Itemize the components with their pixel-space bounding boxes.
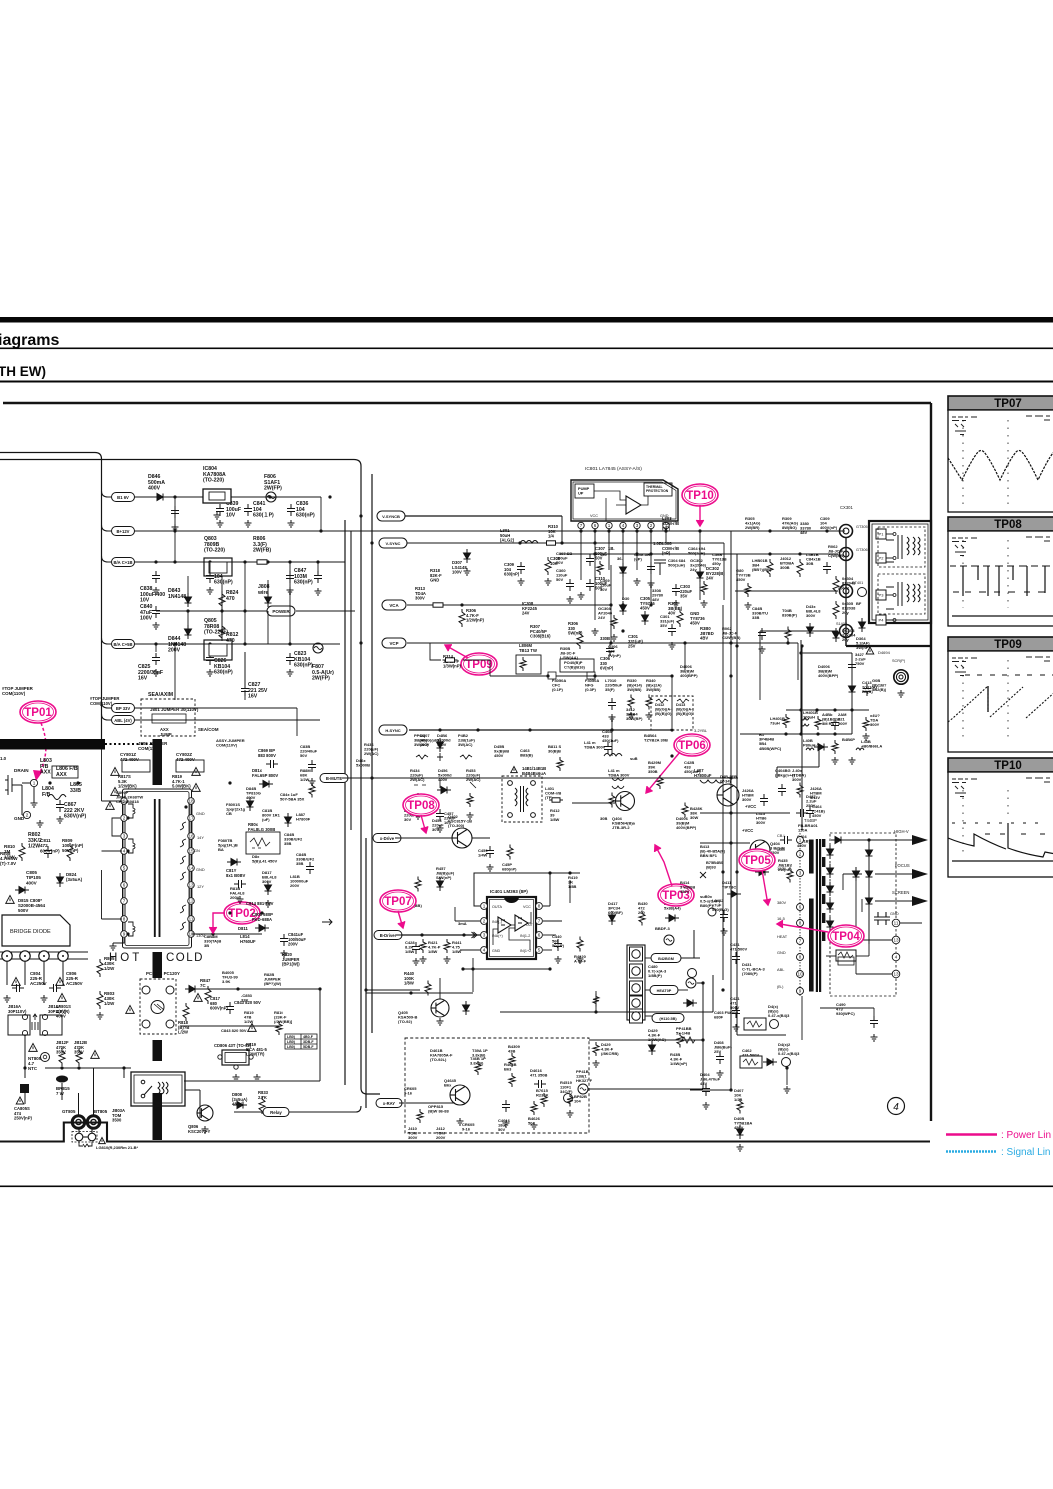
wire <box>24 961 26 985</box>
yoke pin box 2 <box>876 553 886 563</box>
svg-text:J801 JUMPER 30(110V): J801 JUMPER 30(110V) <box>150 707 199 712</box>
svg-text:(BP?)(W): (BP?)(W) <box>264 981 282 986</box>
wire <box>155 644 157 652</box>
label C369 <box>600 578 612 592</box>
transformer core <box>155 799 160 937</box>
label B413 <box>700 844 726 858</box>
svg-text:L/2W: L/2W <box>178 1030 188 1035</box>
wire <box>244 690 246 700</box>
junction <box>867 838 870 841</box>
svg-text:1/4W(nP): 1/4W(nP) <box>670 1061 688 1066</box>
label PP04 <box>414 733 429 747</box>
wire <box>665 529 667 543</box>
ground <box>437 825 444 832</box>
svg-text:1N4148: 1N4148 <box>168 594 186 600</box>
capacitor C440 <box>554 939 562 951</box>
IC402 pin 2 <box>481 918 488 925</box>
label C4M <box>838 712 848 726</box>
label R310 <box>548 524 559 539</box>
resistor R806 <box>254 560 270 564</box>
resistor R43x <box>677 1033 683 1048</box>
cap black <box>20 1084 29 1093</box>
svg-text:H7800F: H7800F <box>296 817 311 822</box>
svg-text:35V: 35V <box>660 623 667 628</box>
regulator IC804 body <box>203 489 231 503</box>
svg-text:3: 3 <box>483 933 486 938</box>
svg-text:200V: 200V <box>288 942 298 947</box>
svg-text:GT805: GT805 <box>62 1109 76 1114</box>
diode D30x <box>437 738 444 752</box>
T801 hook 2-3 <box>112 818 120 836</box>
diode D454 <box>437 787 451 794</box>
ground <box>737 1144 744 1151</box>
mosfet Q801 <box>5 775 22 795</box>
svg-text:Relay: Relay <box>270 1110 282 1115</box>
label L306 <box>519 643 537 653</box>
capacitor C360 <box>566 579 574 591</box>
wire <box>407 542 724 544</box>
diode D411b <box>727 891 741 898</box>
svg-text:TP09: TP09 <box>994 639 1022 651</box>
label D844 <box>168 636 186 654</box>
svg-text:(0.3P): (0.3P) <box>585 687 597 692</box>
svg-text:1/8W: 1/8W <box>404 981 414 986</box>
svg-text:3W(AC): 3W(AC) <box>414 742 429 747</box>
label suB0x <box>700 894 721 908</box>
svg-text:HIGH-V: HIGH-V <box>894 829 909 834</box>
label C307 <box>595 546 608 561</box>
wire <box>671 676 673 728</box>
svg-text:GND: GND <box>890 911 899 916</box>
svg-text:4: 4 <box>893 1102 899 1113</box>
circ mark2 <box>688 969 697 978</box>
diode D40B <box>737 1125 744 1139</box>
svg-text:50Y-5BA 35X: 50Y-5BA 35X <box>280 797 305 802</box>
label D411 <box>722 880 736 890</box>
capacitor C846b <box>314 571 322 583</box>
wire trunk x737 <box>736 554 738 1035</box>
label R062b <box>828 544 845 558</box>
ground <box>172 524 179 531</box>
wire to CY306 <box>560 553 838 555</box>
label A40b <box>822 712 841 726</box>
resistor R346 <box>646 695 652 710</box>
junction <box>218 495 221 498</box>
label CR605b <box>404 1086 417 1096</box>
svg-text:GT306: GT306 <box>856 548 868 552</box>
label R810 <box>4 844 15 859</box>
svg-text:(TO-220F): (TO-220F) <box>204 630 228 636</box>
IC801 thermal box <box>644 483 672 496</box>
label F8001S <box>226 802 246 816</box>
wire <box>543 934 556 936</box>
svg-text:TP10: TP10 <box>994 760 1022 772</box>
svg-text:B1 6V: B1 6V <box>117 495 129 500</box>
connector V-SYNC <box>379 538 407 548</box>
svg-text:B4B4Bx6uA: B4B4Bx6uA <box>522 771 546 776</box>
svg-text:8W(BG): 8W(BG) <box>782 525 797 530</box>
svg-text:B63: B63 <box>504 1067 512 1072</box>
T801 winding right <box>180 822 186 830</box>
wire <box>405 515 562 517</box>
junction <box>228 781 231 784</box>
svg-text:2: 2 <box>650 523 653 528</box>
svg-text:470: 470 <box>226 638 235 644</box>
warning mark <box>192 784 201 792</box>
svg-text:1.0B: 1.0B <box>653 541 662 546</box>
label D429b <box>601 1042 619 1056</box>
wire <box>594 532 596 620</box>
wire <box>134 530 845 532</box>
resistor B4309 <box>509 1053 515 1067</box>
label <box>608 546 615 551</box>
label D429 <box>648 1028 666 1042</box>
label C360 <box>556 568 568 582</box>
resistor JB12 <box>59 1048 65 1066</box>
junction <box>594 1010 597 1013</box>
connector ABL (4V) <box>112 716 135 725</box>
svg-text:P3: P3 <box>879 593 885 598</box>
coil L40B <box>806 748 814 750</box>
svg-text:24V: 24V <box>522 611 530 616</box>
wire <box>712 975 714 1012</box>
label D454b <box>404 808 416 822</box>
svg-text:5x000B: 5x000B <box>356 763 370 768</box>
IC402 pin 1 <box>481 903 488 910</box>
resistor R805 <box>97 959 103 977</box>
relay contacts <box>141 1080 168 1098</box>
svg-text:HEAT: HEAT <box>777 934 788 939</box>
wire <box>580 529 582 543</box>
ground <box>487 864 494 871</box>
label C81Y <box>226 868 246 878</box>
CN402 pin 1 <box>630 947 643 961</box>
svg-text:GND: GND <box>196 867 205 872</box>
svg-text:7: 7 <box>799 939 802 944</box>
junction <box>328 495 331 498</box>
svg-text:400V: 400V <box>56 1014 66 1019</box>
junction <box>236 987 239 990</box>
label R805 <box>104 956 115 971</box>
ground <box>315 588 322 595</box>
svg-text:HOT: HOT <box>109 952 142 964</box>
label R313 <box>415 586 426 601</box>
wire <box>134 719 297 721</box>
capacitor C301c <box>668 624 676 636</box>
svg-text:250V(nP): 250V(nP) <box>14 1116 33 1121</box>
svg-text:FAL8LG 300B: FAL8LG 300B <box>248 827 275 832</box>
TP01 arrow <box>33 723 46 781</box>
label D4616 <box>530 1068 547 1078</box>
wire <box>622 532 624 600</box>
label C431 <box>730 942 747 952</box>
label T46B <box>470 1056 486 1066</box>
label C4616b <box>498 1118 511 1132</box>
svg-text:1/2W: 1/2W <box>104 1001 115 1006</box>
svg-text:FOCUS: FOCUS <box>895 863 910 868</box>
label C413 <box>862 680 878 694</box>
label D4x <box>768 1004 790 1018</box>
svg-text:11: 11 <box>894 921 899 926</box>
connector H-SYNC <box>379 725 407 735</box>
svg-text:x-Drive: x-Drive <box>380 836 395 841</box>
label D413 <box>676 702 694 716</box>
label <box>600 552 607 557</box>
box pc405 <box>560 659 594 672</box>
waveform panel TP07 body <box>948 410 1053 512</box>
svg-text:10: 10 <box>797 972 803 977</box>
FBT pin 13 right <box>892 936 900 944</box>
junction <box>729 641 732 644</box>
resistor R812 <box>219 623 225 641</box>
terminal BT401 <box>840 585 853 598</box>
junction <box>635 552 638 555</box>
resistor R408 <box>797 783 803 798</box>
junction <box>785 1066 788 1069</box>
junction <box>664 529 667 532</box>
label L407 <box>694 768 712 778</box>
label R833 <box>258 1090 269 1100</box>
label C808 <box>252 912 273 922</box>
svg-text:450(1uF): 450(1uF) <box>602 738 619 743</box>
FBT secondary winding <box>822 894 825 904</box>
wire <box>6 961 8 985</box>
capacitor C867 <box>56 800 64 812</box>
wire <box>234 1111 263 1113</box>
label fuse <box>96 1145 138 1150</box>
wire to GT805 <box>78 1093 80 1115</box>
svg-text:35B: 35B <box>284 841 291 846</box>
capacitor C4Mc <box>831 718 839 730</box>
svg-text:16V: 16V <box>138 676 148 682</box>
junction <box>184 805 187 808</box>
waveform panel TP09 title bar <box>948 637 1053 651</box>
svg-text:JUMP: JUMP <box>160 732 172 737</box>
capacitor C318 <box>608 698 616 710</box>
label J805 <box>138 741 168 751</box>
svg-text:680(nP): 680(nP) <box>502 867 517 872</box>
wire <box>319 989 321 1081</box>
label J426b <box>810 786 822 800</box>
label R428 <box>690 806 703 820</box>
TP06 arrow <box>646 752 680 793</box>
svg-text:24V: 24V <box>706 576 714 581</box>
junction <box>186 609 189 612</box>
ground <box>832 757 839 764</box>
capacitor C836 <box>287 504 295 516</box>
junction <box>609 603 612 606</box>
label J4012 <box>780 556 794 570</box>
wire <box>134 561 345 563</box>
svg-text:OUTA: OUTA <box>492 905 503 909</box>
svg-text:TP07: TP07 <box>994 398 1022 410</box>
junction <box>815 708 818 711</box>
wire x-Drive <box>395 837 452 839</box>
FBT rectifier diode <box>827 882 834 896</box>
label jumper <box>2 686 34 696</box>
IC402 pin 8 <box>536 903 543 910</box>
svg-text:30W: 30W <box>690 815 698 820</box>
label C309b <box>820 516 838 530</box>
warning mark <box>111 768 120 776</box>
wire bus A <box>0 453 102 740</box>
jumper table <box>285 1034 317 1049</box>
inductor L806 box <box>52 766 78 778</box>
junction <box>721 988 724 991</box>
warning mark <box>99 1138 106 1144</box>
label THERMAL <box>646 485 669 493</box>
svg-text:C?(B)(B16): C?(B)(B16) <box>564 665 586 670</box>
page header bar <box>0 317 1053 323</box>
label R43B <box>670 1052 688 1066</box>
svg-text:5: 5 <box>123 866 126 871</box>
wire <box>102 556 112 562</box>
svg-text:8: 8 <box>538 904 541 909</box>
capacitor D404 <box>702 1084 710 1096</box>
svg-text:1/4W: 1/4W <box>478 853 488 858</box>
wire <box>820 1007 874 1009</box>
svg-text:4B0B(WPC): 4B0B(WPC) <box>759 746 782 751</box>
ground <box>531 1122 538 1129</box>
label J410 <box>408 1126 418 1140</box>
capacitor C45x <box>486 846 494 858</box>
svg-text:0.47-x(B4)3: 0.47-x(B4)3 <box>768 1013 790 1018</box>
FBT pin 11 right <box>892 919 900 927</box>
junction <box>288 560 291 563</box>
svg-text:CX301: CX301 <box>840 505 853 510</box>
label R88M <box>300 768 311 782</box>
wire <box>102 702 112 708</box>
capacitor C840 <box>152 606 160 618</box>
photocoupler PC801 <box>142 986 174 1028</box>
capacitor C490 <box>870 1016 878 1028</box>
label PUMP UP <box>578 486 590 496</box>
label F4050B <box>585 678 599 692</box>
svg-text:16: 16 <box>188 834 194 839</box>
wire SCREEN <box>875 900 912 902</box>
svg-text:(L-34): (L-34) <box>720 779 732 784</box>
svg-text:TP10: TP10 <box>686 490 714 502</box>
label R422 <box>574 954 587 964</box>
resistor R345 <box>628 695 634 710</box>
svg-text:630(nP): 630(nP) <box>214 670 233 676</box>
label C440 <box>552 934 565 948</box>
resistor JB12B <box>76 1048 82 1066</box>
label F807 <box>312 664 334 682</box>
divider diode 2 <box>853 867 860 881</box>
fuse zig <box>79 1142 92 1147</box>
label BBDF3 <box>655 926 670 931</box>
IC402 opamp B <box>515 915 528 931</box>
warning mark <box>194 994 203 1002</box>
wire <box>681 930 694 958</box>
label C42Bb <box>684 760 701 774</box>
svg-text:3500: 3500 <box>112 1118 122 1123</box>
svg-text:(B)(B)(G): (B)(B)(G) <box>676 711 693 716</box>
wire FOCUS <box>875 873 912 875</box>
svg-text:x-RAY: x-RAY <box>383 1101 395 1106</box>
junction <box>800 644 803 647</box>
label J808 <box>257 584 270 596</box>
svg-text:C/2W(BB): C/2W(BB) <box>722 635 741 640</box>
label R412 <box>550 808 560 822</box>
label B4309 <box>508 1044 521 1054</box>
svg-text:630(nP): 630(nP) <box>294 663 313 669</box>
label D846 <box>148 474 165 492</box>
svg-text:3W(BB): 3W(BB) <box>646 687 661 692</box>
svg-text:TDBA 300V: TDBA 300V <box>584 745 606 750</box>
resistor R809 <box>67 843 73 861</box>
svg-text:(/2W(BB)]: (/2W(BB)] <box>274 1019 293 1024</box>
wire <box>43 961 45 985</box>
transistor Q404 <box>616 792 635 811</box>
CN402 pin 2 <box>630 964 643 978</box>
wire <box>460 949 480 951</box>
label F080TB <box>218 838 238 852</box>
svg-text:30B: 30B <box>806 561 813 566</box>
label x4U <box>870 713 880 727</box>
ground <box>110 943 117 950</box>
label assy <box>216 738 245 748</box>
label JB03A <box>112 1108 125 1123</box>
svg-text:AXX: AXX <box>40 770 51 776</box>
wire bus segment <box>101 870 103 919</box>
label R4519 <box>560 1080 573 1094</box>
svg-text:L/2W(TR): L/2W(TR) <box>246 1052 265 1057</box>
resistor R4x2 <box>415 877 421 892</box>
junction <box>609 641 612 644</box>
svg-text:480V: 480V <box>232 1102 242 1107</box>
wire <box>102 638 112 644</box>
junction <box>799 651 802 654</box>
wire bus segment 2 <box>101 749 103 801</box>
isolation barrier segment <box>153 1093 163 1140</box>
svg-text:300V: 300V <box>742 797 752 802</box>
capacitor C362 <box>647 562 655 574</box>
svg-text:(nP): (nP) <box>662 526 671 531</box>
ground <box>701 600 708 607</box>
label Q4645 <box>444 1078 457 1088</box>
wire <box>868 944 870 956</box>
wire to BT805 <box>93 1068 95 1115</box>
svg-text:8: 8 <box>799 955 802 960</box>
resistor R81t <box>276 1021 282 1035</box>
label C825 <box>138 664 163 682</box>
junction <box>701 981 704 984</box>
bridge terminal 1 <box>2 951 12 961</box>
svg-text:FKD-688A: FKD-688A <box>252 917 272 922</box>
svg-text:9: 9 <box>123 932 126 937</box>
label F806 <box>264 474 282 492</box>
svg-text:50V: 50V <box>498 1127 505 1132</box>
junction <box>621 603 624 606</box>
label B429M <box>648 760 662 774</box>
svg-text:50V: 50V <box>556 577 563 582</box>
svg-text:6V(nP): 6V(nP) <box>600 666 614 671</box>
label <box>432 818 444 832</box>
svg-text:1/8W: 1/8W <box>428 949 438 954</box>
wire <box>267 611 269 644</box>
label C843 <box>234 1000 261 1005</box>
junction <box>173 642 176 645</box>
wire <box>699 531 701 560</box>
svg-text:TP01: TP01 <box>24 707 52 719</box>
transistor Q803 body <box>209 562 227 573</box>
junction <box>735 644 738 647</box>
svg-text:1/2W: 1/2W <box>104 966 115 971</box>
wire <box>454 907 456 921</box>
svg-text:1/2W: 1/2W <box>28 844 40 850</box>
